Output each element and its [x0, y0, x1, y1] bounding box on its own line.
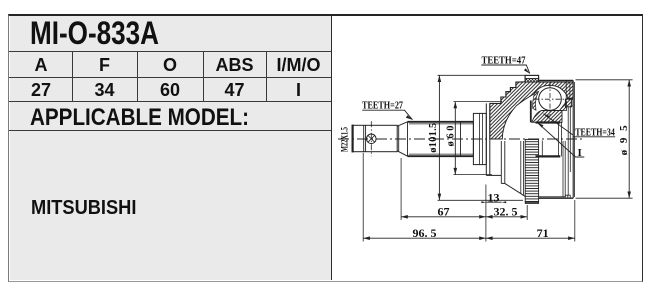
spline right end vertical — [472, 122, 474, 156]
ball crosshair horizontal — [535, 98, 567, 100]
bottom step bottom edge — [501, 182, 505, 184]
leader TEETH=27 — [362, 110, 412, 120]
main centerline — [338, 138, 582, 140]
rim inner verticals — [566, 80, 570, 99]
stub left end face thick — [352, 125, 354, 153]
bore top thick line — [536, 121, 561, 123]
text TEETH=27 — [341, 55, 631, 240]
bottom step verticals — [501, 141, 505, 183]
spline runout vertical — [460, 122, 462, 156]
spline shaft TEETH=27 outline — [408, 122, 474, 156]
ABS ring band external with teeth stripes — [525, 140, 538, 204]
dia101.5 extension lines — [438, 75, 527, 200]
svg-text:67: 67 — [438, 205, 450, 219]
leader TEETH=34 — [544, 114, 616, 137]
leader TEETH=47 — [481, 65, 530, 74]
dia101.5 arrows — [438, 75, 442, 200]
table v-line 4 — [266, 51, 267, 102]
thread runout double line — [364, 125, 366, 151]
dimension 96.5 line — [363, 237, 486, 239]
svg-text:13: 13 — [488, 190, 500, 204]
stub right face second line — [398, 126, 400, 151]
header O — [137, 55, 203, 76]
label APPLICABLE MODEL: — [30, 104, 249, 132]
threaded stub body M22 — [352, 125, 397, 151]
dia60 arrows — [454, 102, 458, 175]
dimension 13 line — [486, 201, 502, 203]
header ABS — [203, 55, 266, 76]
bell top face double line — [539, 79, 574, 81]
inner race left edge thick — [530, 101, 532, 123]
dimension dia95 line — [628, 80, 630, 198]
left gray panel — [10, 16, 331, 280]
ball — [539, 88, 562, 111]
value I — [266, 80, 331, 101]
svg-text:ø95: ø95 — [618, 125, 630, 156]
dia95 arrows — [627, 80, 631, 198]
header F — [72, 55, 137, 76]
center hole symbol circle — [367, 134, 377, 144]
value 60 — [137, 80, 203, 101]
rim right face double — [572, 80, 574, 198]
title MI-O-833A — [30, 15, 159, 52]
bore front edge below centerline — [541, 141, 543, 157]
value 34 — [72, 80, 137, 101]
dim 96.5 arrows — [363, 236, 486, 240]
bell left face double line — [486, 103, 490, 175]
table v-line 3 — [203, 51, 204, 102]
dimension dia101.5 line — [438, 75, 440, 200]
leader I — [537, 122, 584, 157]
dim 71 arrows — [486, 236, 575, 240]
table h-line 2 — [9, 77, 331, 78]
table v-line 1 — [72, 51, 73, 102]
bore bottom thick line — [536, 155, 561, 157]
svg-text:71: 71 — [537, 226, 549, 240]
bottom surface band verticals — [521, 141, 524, 195]
bottom external view: left face bottom edge — [486, 174, 501, 176]
dim 13 arrows outside — [481, 201, 506, 203]
value 47 — [203, 80, 266, 101]
boot spool inner lines — [480, 113, 483, 164]
dimension 32.5 line — [486, 216, 527, 218]
cage wedge right of ball — [560, 102, 567, 111]
bore right chamfer verticals — [559, 123, 562, 157]
dia95 extension lines — [576, 80, 633, 198]
cage wedge left of ball — [533, 91, 539, 110]
boot spool — [473, 113, 486, 164]
svg-text:I: I — [578, 147, 582, 159]
taper stub to spline shaft — [397, 122, 407, 156]
dimension dia60 line — [454, 102, 456, 175]
header I/M/O — [266, 55, 331, 76]
svg-text:M22X1.5: M22X1.5 — [341, 127, 351, 152]
circlip small step top — [571, 100, 573, 106]
svg-text:ø101.5: ø101.5 — [428, 123, 439, 153]
svg-text:TEETH=27: TEETH=27 — [362, 100, 403, 112]
stub vertical centerline — [370, 121, 372, 156]
svg-text:ø60: ø60 — [446, 126, 457, 147]
rim bottom verticals external — [563, 141, 565, 197]
svg-text:TEETH=47: TEETH=47 — [482, 55, 526, 67]
table h-line 3 — [9, 101, 331, 102]
extension line x527 — [526, 205, 528, 220]
bell bottom face double line — [539, 197, 574, 199]
dimension 71 line — [486, 237, 575, 239]
dia60 extension lines — [453, 102, 502, 175]
dimension 67 line — [401, 216, 486, 218]
dim 32.5 arrows — [486, 215, 527, 219]
table v-line 2 — [137, 51, 138, 102]
svg-text:32. 5: 32. 5 — [494, 205, 518, 219]
table h-line 1 — [9, 51, 331, 52]
svg-text:TEETH=34: TEETH=34 — [575, 126, 615, 138]
circlip groove block top — [565, 99, 571, 107]
circlip foot bottom — [565, 195, 570, 198]
dim 67 arrows — [401, 215, 486, 219]
extension line x401 — [400, 158, 402, 220]
inner race hatched block — [532, 111, 562, 123]
header A — [9, 55, 73, 76]
extension line x575 — [574, 200, 576, 242]
extension line x363 — [362, 153, 364, 242]
label MITSUBISHI — [31, 196, 136, 220]
svg-text:96. 5: 96. 5 — [413, 226, 437, 240]
value 27 — [9, 80, 73, 101]
bell wall section hatched (top-left) — [490, 82, 573, 139]
center hole X cross — [368, 135, 375, 142]
table h-line 4 — [9, 130, 331, 131]
bottom silhouette diagonal — [505, 183, 525, 196]
ball crosshair vertical — [549, 83, 551, 117]
bell outer step profile — [490, 82, 525, 104]
ABS tone ring section — [525, 75, 539, 82]
divider between table and drawing — [331, 15, 333, 280]
spline left end vertical — [407, 122, 409, 156]
extension line x486 — [485, 185, 487, 242]
spline minor diameter thin lines — [409, 124, 473, 154]
